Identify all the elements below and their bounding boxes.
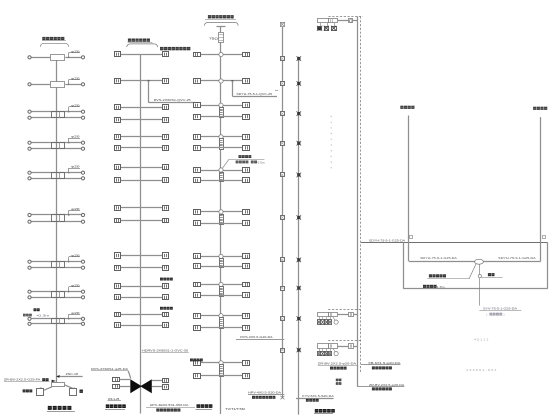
svg-text:φ20: φ20 [71, 311, 80, 315]
svg-text:SYV-75-5-1-G25-DA: SYV-75-5-1-G25-DA [483, 307, 517, 311]
svg-text:φ20: φ20 [71, 207, 80, 211]
svg-text:(: ( [486, 313, 487, 317]
svg-text:φ20: φ20 [71, 284, 80, 288]
svg-text:ZR-BV-2X2.5-φ20-DA: ZR-BV-2X2.5-φ20-DA [369, 383, 404, 387]
svg-text:): ) [504, 313, 505, 317]
svg-text:HDRVS-2X60S1-1-GVC-30: HDRVS-2X60S1-1-GVC-30 [142, 349, 188, 353]
svg-text:•0.3m: •0.3m [37, 313, 51, 317]
svg-text:ZNC-18: ZNC-18 [66, 372, 79, 376]
svg-text:RVS-2X0.6-G20-DA: RVS-2X0.6-G20-DA [240, 335, 272, 339]
svg-text:SDYH-75-9-1-G25-DA: SDYH-75-9-1-G25-DA [420, 256, 457, 260]
svg-text:φ20: φ20 [71, 49, 80, 53]
svg-text:KYV-6X1.5-S20-DA: KYV-6X1.5-S20-DA [302, 394, 333, 398]
svg-text:4 5 1 1 1: 4 5 1 1 1 [474, 338, 489, 342]
svg-text:75Ω: 75Ω [209, 36, 219, 40]
svg-text:φ20: φ20 [71, 254, 80, 258]
svg-text:XB-6X1.5-φ20-DA: XB-6X1.5-φ20-DA [368, 361, 400, 365]
svg-text:0.5m: 0.5m [258, 160, 266, 164]
svg-text:TV/T1/T.5M: TV/T1/T.5M [225, 407, 245, 411]
svg-text:RVS-2X60S1-φ25-DA: RVS-2X60S1-φ25-DA [91, 367, 128, 371]
svg-text:HPV-4X0.5-S20-DA: HPV-4X0.5-S20-DA [248, 390, 281, 394]
svg-text:RVS-2X60S1-QVC-25: RVS-2X60S1-QVC-25 [154, 98, 191, 102]
svg-text:SDYH-75-5-1-QVC-25: SDYH-75-5-1-QVC-25 [236, 92, 272, 96]
svg-text:ZR-BV-2X2.5-φ20-DA: ZR-BV-2X2.5-φ20-DA [318, 362, 356, 366]
svg-text:SDYH-75-9-1-G25-DA: SDYH-75-9-1-G25-DA [369, 238, 405, 242]
svg-text:ZR-BV-2X2.5-G25-FA: ZR-BV-2X2.5-G25-FA [4, 378, 40, 382]
svg-text:SDYH-75-9-1-G25-DA: SDYH-75-9-1-G25-DA [498, 256, 536, 260]
svg-text:φ20: φ20 [71, 76, 80, 80]
svg-text:φ20: φ20 [71, 135, 80, 139]
svg-text:φ20: φ20 [71, 165, 80, 169]
svg-text:φ20: φ20 [71, 104, 80, 108]
svg-text:1.5m: 1.5m [437, 285, 446, 289]
svg-text:HPV-4EX0.5S1-050-DA: HPV-4EX0.5S1-050-DA [150, 403, 189, 407]
svg-text:1 3 4 5 6 1 - 6 0 1: 1 3 4 5 6 1 - 6 0 1 [466, 368, 497, 372]
